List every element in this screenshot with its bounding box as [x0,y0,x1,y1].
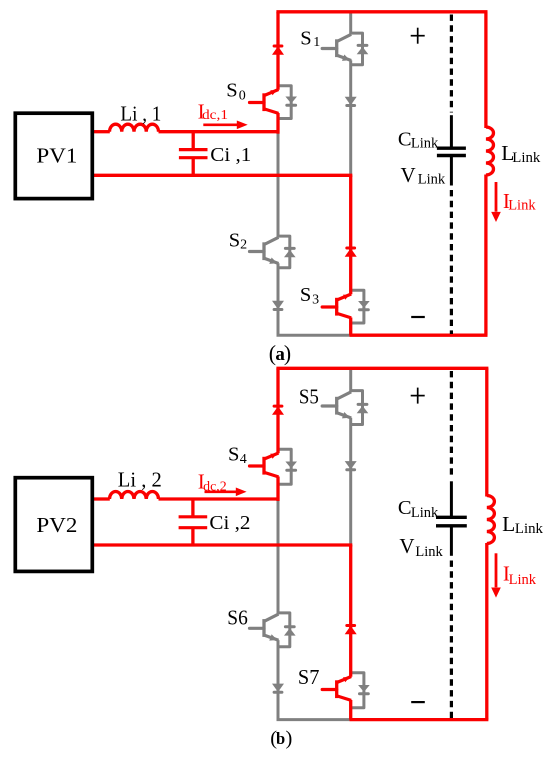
svg-text:PV2: PV2 [36,513,77,537]
wire S4 emitter down to boost junction [276,477,279,502]
anti-parallel diode of S0 (gray loop) [278,86,297,119]
inductor Li,2 [110,491,159,499]
label CLink (b) [398,497,439,521]
series diode above S0 [272,46,284,55]
label S7 [298,665,320,689]
anti-parallel diode of S5 (gray loop) [351,391,369,425]
label S4 [228,443,247,467]
polarity plus sign [411,28,425,44]
anti-parallel diode of S7 (gray loop) [351,673,370,708]
dashed DC-link boundary line [450,371,453,718]
transistor S4 (IGBT) [250,453,279,477]
series diode above S4 [272,406,284,415]
svg-text:dc,1: dc,1 [202,107,228,122]
label VLink [401,163,446,187]
anti-parallel diode of S3 (gray loop) [351,290,370,323]
inductor Li,1 [110,124,159,132]
svg-text:S: S [228,443,239,465]
label Li,1 inductor value [120,102,161,126]
capacitor Ci,1 [179,132,208,176]
anti-parallel diode of S6 (gray loop) [278,613,296,647]
arrow ILink current direction [491,182,501,222]
label CLink [398,129,439,152]
wire mid branch from top rail to S1 [349,12,352,35]
arrow ILink current direction [491,553,501,597]
wire bottom rail gray segment [277,718,350,721]
PV source block PV1 [15,113,92,198]
wire left branch from top rail to S4 [276,368,279,453]
svg-text:Link: Link [509,572,537,588]
wire mid branch S5 down to PV return junction [349,418,352,545]
wire mid branch S1 down to PV return junction [349,60,352,175]
label Ci,2 capacitor value [209,512,250,534]
svg-text:Link: Link [411,505,439,521]
svg-text:V: V [399,534,414,558]
wire bottom rail gray segment [277,334,350,337]
series diode below S6 [272,684,284,693]
transistor S6 (IGBT) [250,614,279,641]
transistor S5 (IGBT) [322,392,351,419]
label S5 [299,385,319,409]
wire top rail [276,10,487,13]
label Li,2 inductor value [118,467,162,491]
transistor S2 (IGBT) [250,237,279,264]
wire bottom rail red segment [350,334,488,337]
inductor LLink coil [487,496,495,544]
label S3 [300,284,319,308]
wire left branch S2 to bottom rail [277,263,280,335]
inductor LLink coil [486,127,494,175]
label PV2 [36,513,77,537]
label PV1 [36,144,77,168]
svg-text:S: S [300,284,311,306]
polarity plus sign [411,388,425,404]
wire PV2 return to mid branch junction [94,543,352,546]
wire S3 to bottom rail [349,318,352,336]
svg-text:S7: S7 [298,665,320,689]
svg-text:S: S [229,229,240,251]
svg-text:Li , 2: Li , 2 [118,467,162,491]
svg-text:Link: Link [512,150,541,166]
svg-text:4: 4 [240,452,247,467]
label Idc,1 current [198,99,228,123]
transistor S1 (IGBT) [322,34,351,61]
polarity minus sign [411,701,425,703]
wire mid branch junction down to S7 [349,545,352,677]
series diode below S2 [272,301,284,310]
wire S0 emitter down to boost junction [276,113,279,134]
svg-text:): ) [286,727,293,749]
wire left branch from boost junction down to S2 [277,132,280,238]
wire right leg of output loop [485,368,488,719]
label LLink [501,141,541,166]
arrow Idc,1 direction [203,121,247,130]
wire bottom rail red segment [350,718,489,721]
svg-text:Link: Link [508,197,536,213]
svg-text:S: S [300,28,311,50]
wire mid branch junction down to S3 [349,175,352,294]
svg-text:Link: Link [415,544,443,560]
svg-text:C: C [398,129,412,151]
svg-text:Li , 1: Li , 1 [120,102,161,126]
series diode below S1 [345,97,357,106]
wire top rail [276,367,488,370]
svg-text:S5: S5 [299,385,319,409]
wire S7 to bottom rail [349,700,352,720]
wire inductor to S4 junction [159,497,279,500]
anti-parallel diode of S1 (gray loop) [351,33,369,65]
label S0 [226,80,245,104]
transistor S0 (IGBT) [250,90,279,114]
svg-text:Link: Link [411,135,439,151]
svg-text:Link: Link [418,171,446,187]
series diode above S3 [345,248,357,257]
svg-text:Ci ,1: Ci ,1 [210,144,251,166]
dashed DC-link boundary line [450,15,453,335]
label ILink [503,189,536,214]
wire left branch S6 to bottom rail [277,640,280,720]
anti-parallel diode of S4 (gray loop) [278,449,297,484]
wire inductor to S0 junction [159,130,279,133]
wire left branch from boost junction down to S6 [277,499,280,614]
svg-text:V: V [401,163,416,187]
label Idc,2 current [198,469,227,493]
svg-text:1: 1 [313,35,320,50]
label Ci,1 capacitor value [210,144,251,166]
label LLink (b) [502,512,544,537]
label (a) sub-figure [269,341,291,365]
label S1 [300,28,320,50]
svg-text:0: 0 [239,89,246,104]
svg-text:3: 3 [312,293,319,308]
svg-text:S: S [226,80,237,102]
capacitor CLink [437,115,466,185]
label S6 [227,605,248,629]
svg-text:L: L [502,512,515,536]
svg-text:2: 2 [240,238,247,253]
svg-text:S6: S6 [227,605,248,629]
capacitor Ci,2 [179,499,208,545]
capacitor CLink [436,481,467,556]
label S2 [229,229,247,252]
svg-text:): ) [284,341,291,365]
series diode below S5 [345,461,357,470]
svg-text:PV1: PV1 [36,144,77,168]
transistor S3 (IGBT) [322,294,351,318]
wire left branch from top rail to S0 [276,12,279,90]
PV source block PV2 [15,478,92,572]
wire PV1 return to mid branch junction [94,174,352,177]
wire PV1 positive output [94,130,110,133]
wire mid branch from top rail to S5 [349,368,352,392]
svg-text:b: b [276,729,285,748]
label VLink (b) [399,534,443,560]
wire right leg of output loop [484,12,487,335]
transistor S7 (IGBT) [322,677,351,701]
label (b) sub-figure [270,727,292,749]
wire PV2 positive output [94,497,110,500]
svg-text:Ci ,2: Ci ,2 [209,512,250,534]
arrow Idc,2 direction [205,488,247,497]
label ILink (b) [503,562,537,588]
anti-parallel diode of S2 (gray loop) [278,236,296,268]
polarity minus sign [411,316,425,318]
svg-text:C: C [398,497,412,519]
series diode above S7 [345,626,357,635]
svg-text:Link: Link [515,521,544,537]
